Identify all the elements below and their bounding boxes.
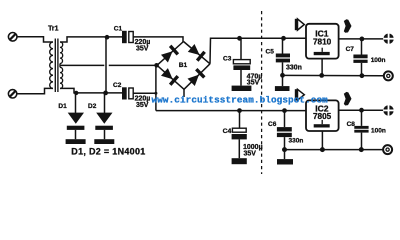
svg-text:7805: 7805 [313, 112, 332, 121]
svg-text:35V: 35V [244, 150, 257, 157]
svg-text:www.circuitsstream.blogspot.co: www.circuitsstream.blogspot.com [152, 94, 329, 105]
svg-text:35V: 35V [247, 80, 260, 87]
svg-text:C5: C5 [266, 48, 275, 55]
svg-text:330n: 330n [289, 138, 304, 145]
svg-text:C3: C3 [223, 55, 232, 62]
svg-text:35V: 35V [136, 102, 149, 109]
svg-text:330n: 330n [286, 64, 302, 71]
svg-text:Tr1: Tr1 [48, 25, 59, 32]
svg-text:D1: D1 [58, 103, 67, 110]
svg-text:C6: C6 [268, 121, 277, 128]
svg-text:C7: C7 [346, 46, 355, 53]
svg-text:C1: C1 [114, 26, 123, 33]
svg-text:D1, D2 = 1N4001: D1, D2 = 1N4001 [71, 146, 145, 156]
svg-text:C2: C2 [113, 82, 122, 89]
svg-text:B1: B1 [179, 62, 188, 69]
svg-text:C8: C8 [347, 121, 356, 128]
svg-text:35V: 35V [136, 45, 149, 52]
svg-text:D2: D2 [88, 103, 97, 110]
svg-text:100n: 100n [371, 127, 386, 134]
svg-text:7810: 7810 [313, 37, 332, 46]
svg-text:C4: C4 [223, 128, 232, 135]
svg-text:100n: 100n [371, 57, 386, 64]
